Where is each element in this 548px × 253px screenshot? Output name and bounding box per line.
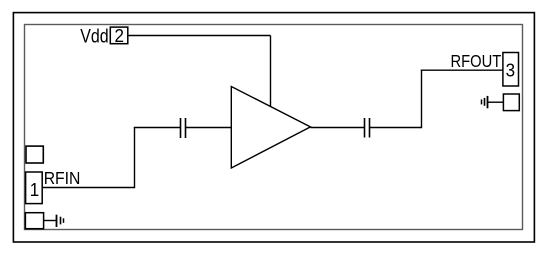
pin 3 box [503, 53, 519, 87]
wire RFOUT vertical [421, 70, 423, 129]
wire to capacitor C1 [134, 127, 181, 129]
ground pad right [503, 94, 519, 111]
wire C1 to amplifier input [186, 127, 232, 129]
ground symbol left [57, 215, 64, 227]
svg-text:2: 2 [114, 26, 123, 47]
wire amplifier output to C2 [310, 127, 364, 129]
svg-text:RFOUT: RFOUT [451, 52, 502, 72]
svg-text:Vdd: Vdd [80, 25, 108, 47]
wire RFIN vertical [134, 128, 136, 189]
svg-text:RFIN: RFIN [44, 168, 81, 188]
ground symbol right [482, 96, 488, 108]
wire ground stem left [44, 220, 57, 222]
pin 2 box [110, 27, 128, 44]
wire Vdd horizontal [128, 35, 271, 37]
unconnected pad left [26, 146, 43, 163]
capacitor C1 left plate [180, 118, 182, 138]
op-amp U1 amplifier triangle [231, 87, 310, 169]
svg-text:1: 1 [30, 179, 40, 200]
wire ground stem right [488, 101, 504, 103]
svg-text:3: 3 [506, 60, 516, 81]
wire RFOUT horizontal to pin 3 [421, 69, 503, 71]
chip body outline [25, 25, 523, 230]
pin 1 box [26, 172, 43, 204]
ground pad left [25, 213, 43, 229]
capacitor C2 right plate [369, 118, 371, 138]
capacitor C2 left plate [364, 118, 366, 138]
wire Vdd vertical to amplifier [270, 36, 272, 108]
wire RFIN horizontal from pin 1 [42, 187, 134, 189]
wire C2 to bend [370, 127, 422, 129]
capacitor C1 right plate [185, 118, 187, 138]
